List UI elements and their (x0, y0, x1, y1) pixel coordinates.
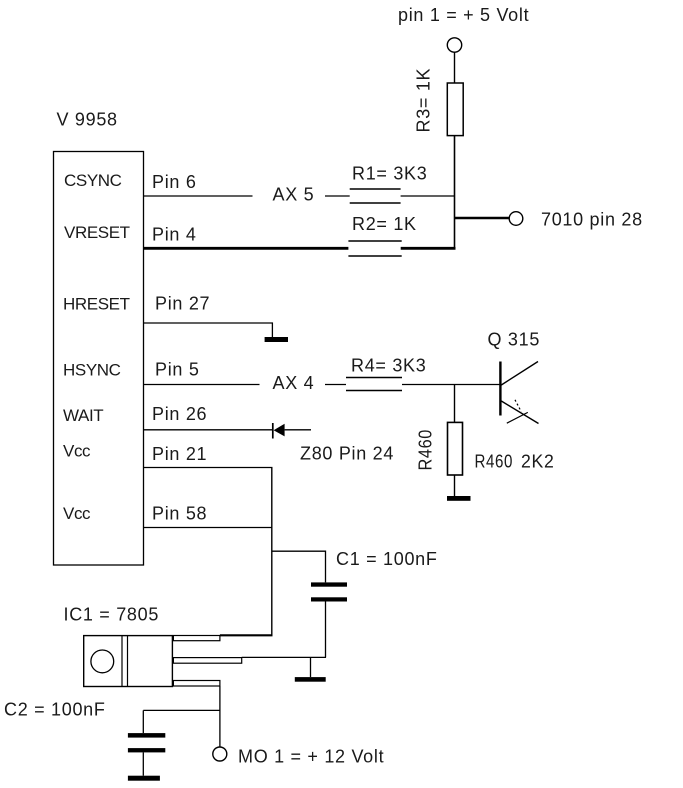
wire branch to C1 (272, 551, 326, 582)
svg-text:WAIT: WAIT (63, 406, 103, 425)
svg-text:AX 4: AX 4 (273, 373, 315, 393)
label R1= 3K3 (352, 164, 427, 184)
resistor R4 (346, 378, 402, 391)
label WAIT (63, 406, 103, 425)
wire diode to right (285, 429, 311, 431)
resistor R3 (447, 83, 463, 136)
svg-text:V 9958: V 9958 (57, 110, 118, 130)
wire pin1 to Vcc bus (220, 634, 273, 636)
label Q 315 (488, 330, 541, 350)
svg-text:Vcc: Vcc (63, 442, 91, 461)
label AX 4 (273, 373, 315, 393)
svg-text:2K2: 2K2 (521, 452, 555, 472)
svg-text:Vcc: Vcc (63, 504, 91, 523)
wire HRESET pin27 (144, 323, 273, 337)
svg-text:Pin 58: Pin 58 (152, 504, 207, 524)
wire WAIT pin26 segment (144, 429, 273, 431)
wire ground stub (310, 657, 312, 677)
svg-text:Q 315: Q 315 (488, 330, 541, 350)
capacitor C1 (311, 582, 347, 601)
resistor R460 (448, 422, 463, 475)
resistor R1 (350, 189, 401, 203)
ground bar C2 (128, 776, 160, 781)
svg-text:C1 = 100nF: C1 = 100nF (336, 549, 438, 569)
wire R1 to node (401, 195, 455, 197)
transistor Q315 (499, 362, 538, 424)
svg-text:HRESET: HRESET (63, 295, 130, 314)
label Pin 58 (152, 504, 207, 524)
svg-text:R1= 3K3: R1= 3K3 (352, 164, 427, 184)
svg-text:R460: R460 (416, 429, 436, 471)
svg-text:pin 1 = + 5 Volt: pin 1 = + 5 Volt (398, 5, 529, 25)
wire +5V to R3 (454, 52, 456, 83)
wire base node down to R460 (454, 385, 456, 423)
label Vcc pin58 (63, 504, 91, 523)
ground bar R460 (447, 496, 471, 501)
pin 3 tab 7805 (173, 681, 220, 687)
wire C1 bottom leg (325, 602, 327, 658)
label IC1 = 7805 (64, 605, 160, 625)
svg-text:Pin 21: Pin 21 (152, 444, 207, 464)
diode arrow Z80 (273, 423, 285, 439)
svg-text:HSYNC: HSYNC (63, 361, 121, 380)
pin 2 tab 7805 (173, 658, 241, 664)
label Pin 5 (155, 360, 200, 380)
ground bar HRESET (265, 337, 288, 342)
capacitor C2 (128, 733, 165, 752)
wire Vcc pin58 (144, 527, 273, 529)
label V 9958 (57, 110, 118, 130)
pin 1 tab 7805 (173, 636, 220, 641)
label R4= 3K3 (351, 356, 426, 376)
svg-text:R460: R460 (475, 452, 514, 472)
wire node to 7010 terminal (454, 217, 510, 220)
label Pin 6 (152, 172, 197, 192)
label AX 5 (273, 185, 315, 205)
svg-text:Pin 4: Pin 4 (152, 225, 197, 245)
wire R3 bottom to VRESET node (454, 136, 456, 250)
wire Vcc pin21 (144, 467, 273, 469)
ground bar C1 (295, 677, 326, 682)
label VRESET (64, 223, 130, 242)
wire pin2 to C1 ground (242, 656, 326, 658)
label C2 = 100nF (4, 700, 106, 720)
wire HSYNC pin5 segment (144, 384, 260, 386)
svg-text:VRESET: VRESET (64, 223, 130, 242)
svg-text:Pin 26: Pin 26 (152, 404, 207, 424)
svg-text:C2 = 100nF: C2 = 100nF (4, 700, 106, 720)
wire VRESET pin4 segment (144, 247, 349, 250)
label Z80 Pin 24 (300, 444, 394, 464)
wire AX4 to R4 (325, 384, 346, 386)
label Pin 26 (152, 404, 207, 424)
svg-text:7010 pin 28: 7010 pin 28 (541, 210, 643, 230)
svg-text:MO 1 = + 12 Volt: MO 1 = + 12 Volt (238, 747, 384, 767)
terminal +5V circle (447, 38, 461, 52)
wire R460 to ground (454, 475, 456, 496)
label R460 (rotated) (416, 429, 436, 471)
IC U1 V9958 body (54, 152, 144, 566)
IC IC1 7805 body (84, 636, 173, 687)
wire C2 top leg (142, 710, 144, 733)
wire AX5 to R1 (325, 195, 350, 197)
svg-text:Pin 5: Pin 5 (155, 360, 200, 380)
svg-text:IC1 = 7805: IC1 = 7805 (64, 605, 160, 625)
wire pin3 down to MO1 (219, 686, 221, 747)
wire R2 to node (401, 247, 456, 250)
wire C2 bottom leg (142, 752, 144, 775)
label HRESET (63, 295, 130, 314)
wire MO1 to C2 (143, 709, 220, 711)
label R460 2K2 (475, 452, 555, 472)
terminal 7010 circle (509, 212, 523, 226)
label C1 = 100nF (336, 549, 438, 569)
label CSYNC (64, 171, 122, 190)
svg-text:CSYNC: CSYNC (64, 171, 122, 190)
label HSYNC (63, 361, 121, 380)
label MO 1 = + 12 Volt (238, 747, 384, 767)
wire Vcc bus vertical (271, 468, 273, 636)
svg-text:Pin 27: Pin 27 (155, 294, 210, 314)
svg-text:R2= 1K: R2= 1K (352, 214, 417, 234)
svg-text:R4= 3K3: R4= 3K3 (351, 356, 426, 376)
resistor R2 (348, 241, 401, 256)
terminal MO1 circle (213, 747, 227, 761)
label Pin 27 (155, 294, 210, 314)
wire CSYNC pin6 segment (144, 195, 253, 197)
label R2= 1K (352, 214, 417, 234)
wire R4 to transistor base (402, 384, 500, 386)
svg-text:R3= 1K: R3= 1K (414, 68, 434, 133)
label Vcc pin21 (63, 442, 91, 461)
label pin 1 = + 5 Volt (398, 5, 529, 25)
label R3= 1K (rotated) (414, 68, 434, 133)
svg-text:Pin 6: Pin 6 (152, 172, 197, 192)
label Pin 4 (152, 225, 197, 245)
label 7010 pin 28 (541, 210, 643, 230)
svg-text:Z80 Pin 24: Z80 Pin 24 (300, 444, 394, 464)
svg-text:AX 5: AX 5 (273, 185, 315, 205)
label Pin 21 (152, 444, 207, 464)
